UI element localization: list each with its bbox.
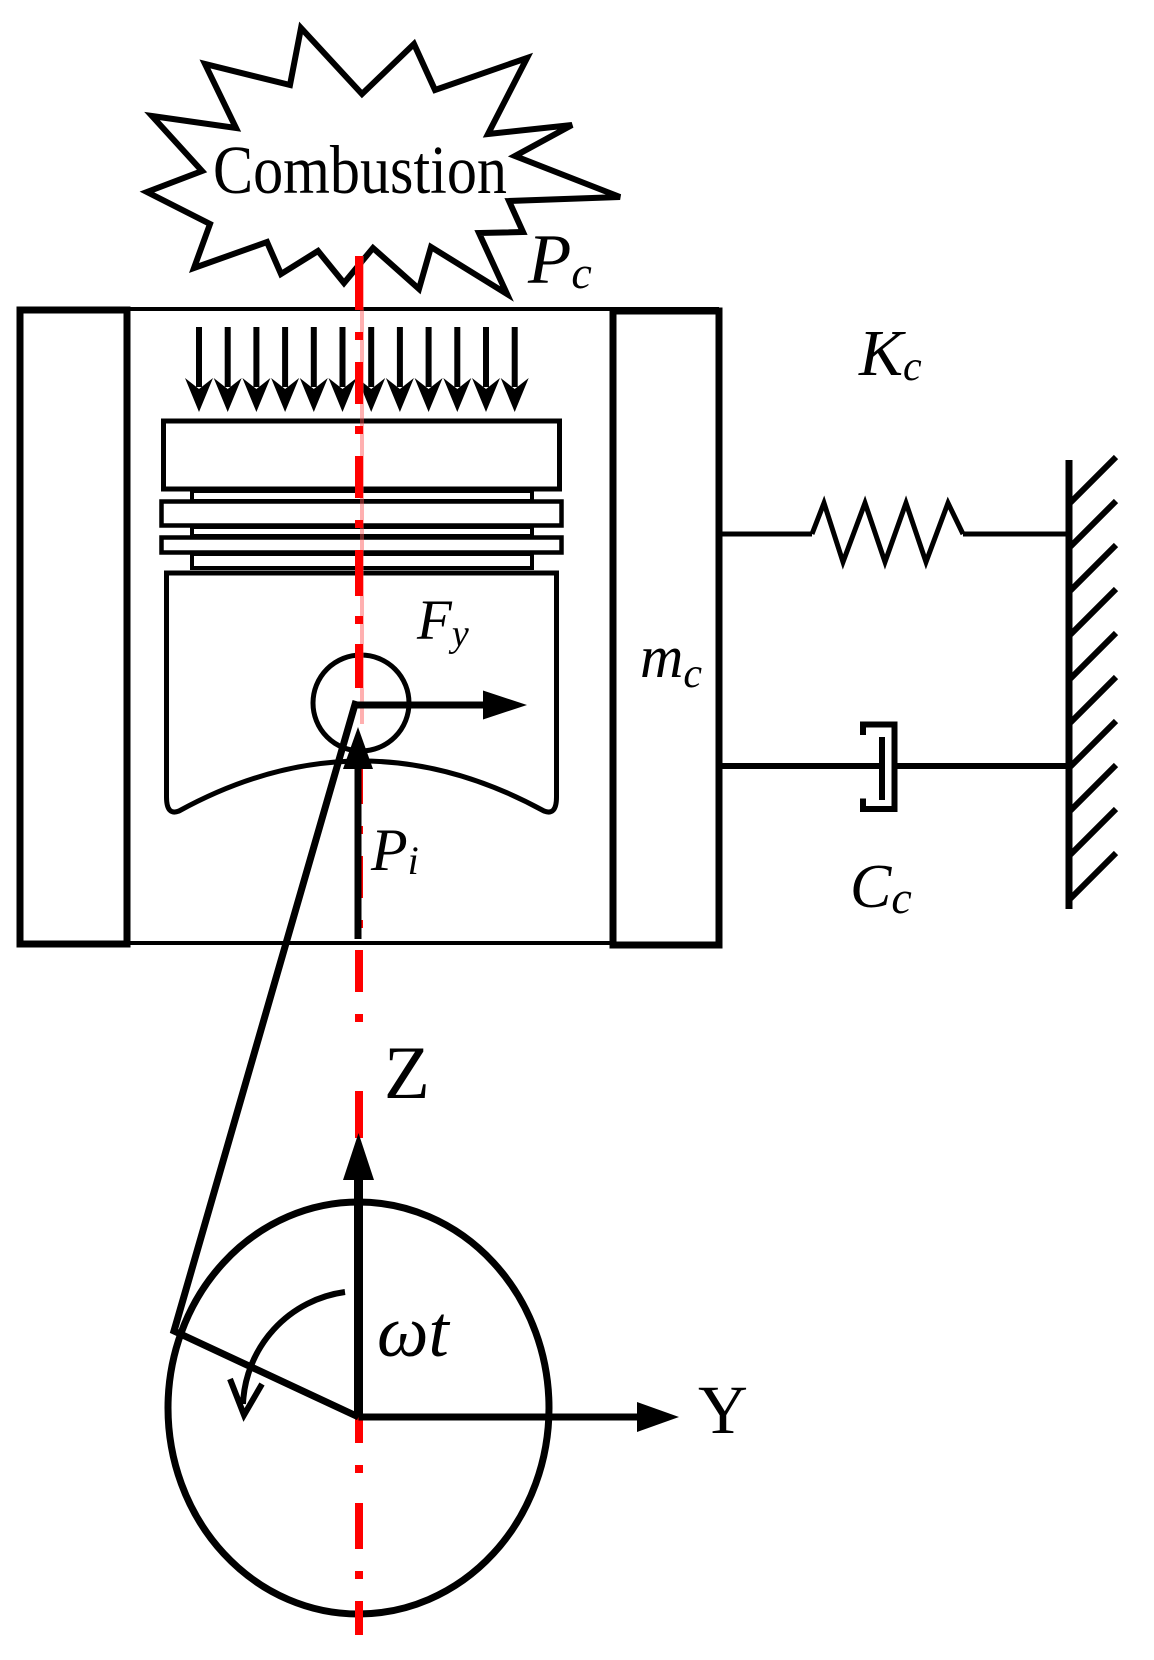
svg-text:Y: Y [698, 1372, 748, 1448]
Z axis arrow [343, 1133, 374, 1417]
rotation arc [243, 1292, 345, 1404]
cylinder bottom line [127, 941, 613, 945]
connecting rod and crank throw [174, 701, 359, 1417]
combustion pressure arrows [185, 327, 529, 412]
wall hatching [1070, 457, 1116, 899]
piston ring 1 [162, 502, 562, 526]
piston crown [164, 421, 560, 489]
red centerline upper [355, 256, 363, 724]
svg-text:Pc: Pc [527, 221, 592, 299]
svg-text:ωt: ωt [377, 1291, 451, 1372]
svg-text:Pi: Pi [370, 817, 419, 883]
piston ring land A [192, 491, 532, 501]
piston ring land B [192, 527, 532, 536]
piston skirt [167, 573, 557, 812]
piston ring land C [192, 554, 532, 568]
spring Kc [719, 503, 1066, 562]
cylinder right wall mc block [613, 311, 719, 945]
svg-text:Combustion: Combustion [213, 132, 507, 208]
wrist pin [313, 655, 409, 751]
svg-text:Cc: Cc [850, 853, 912, 923]
svg-text:Z: Z [384, 1032, 430, 1115]
red centerline lower [355, 762, 363, 1635]
force arrow Pi [343, 727, 373, 939]
crank circle [168, 1202, 549, 1614]
cylinder left wall [20, 310, 127, 944]
Y axis arrow [359, 1402, 680, 1432]
rotation arrowhead [230, 1379, 262, 1415]
force arrow Fy [353, 691, 527, 720]
combustion starburst [147, 28, 620, 294]
cylinder top line [20, 307, 719, 311]
fixed wall line [1066, 460, 1073, 909]
svg-text:Kc: Kc [858, 317, 922, 390]
piston ring 2 [162, 538, 562, 553]
centerline pale underlay [360, 256, 364, 724]
damper Cc [719, 725, 1066, 810]
